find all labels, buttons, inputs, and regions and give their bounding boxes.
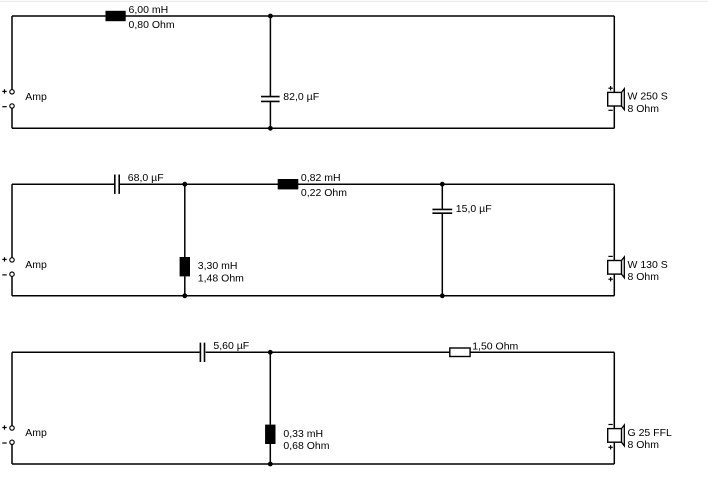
label Amp plus sign section 2 bbox=[2, 257, 6, 261]
speaker LS1 horn bbox=[622, 89, 625, 110]
wire bottom rail section 2 bbox=[12, 295, 614, 297]
wire right rail lower section 2 bbox=[613, 274, 615, 296]
label Amp plus sign section 1 bbox=[2, 89, 6, 93]
wire bottom rail section 3 bbox=[12, 463, 614, 465]
label Amp plus sign section 3 bbox=[2, 425, 6, 429]
label speaker minus section 2 bbox=[608, 255, 612, 257]
svg-text:8 Ohm: 8 Ohm bbox=[628, 439, 660, 451]
wire top rail right of C4 bbox=[206, 351, 615, 353]
node junction bottom of L2 bbox=[182, 293, 187, 298]
terminal Amp plus circle section 1 bbox=[10, 90, 14, 94]
svg-text:8 Ohm: 8 Ohm bbox=[628, 103, 660, 115]
svg-text:15,0 µF: 15,0 µF bbox=[456, 203, 492, 215]
wire L4 lower lead bbox=[269, 444, 271, 464]
wire left rail upper section 3 bbox=[11, 352, 13, 425]
svg-text:W 250 S: W 250 S bbox=[628, 91, 668, 103]
wire left rail lower section 1 bbox=[11, 108, 13, 128]
node junction bottom of C1 bbox=[268, 126, 273, 131]
speaker LS2 box bbox=[608, 261, 622, 275]
svg-text:8 Ohm: 8 Ohm bbox=[628, 271, 660, 283]
wire left rail upper section 2 bbox=[11, 184, 13, 257]
terminal Amp minus circle section 3 bbox=[10, 440, 14, 444]
inductor L4 shunt bbox=[265, 425, 275, 444]
wire L4 upper lead bbox=[269, 352, 271, 424]
wire bottom rail section 1 bbox=[12, 127, 614, 129]
svg-text:0,80 Ohm: 0,80 Ohm bbox=[129, 19, 175, 31]
svg-text:5,60 µF: 5,60 µF bbox=[213, 340, 249, 352]
wire L2 upper lead bbox=[184, 184, 186, 257]
svg-text:Amp: Amp bbox=[25, 427, 47, 439]
wire left rail upper section 1 bbox=[11, 16, 13, 90]
wire top rail section 1 bbox=[12, 15, 614, 17]
wire right rail upper section 2 bbox=[613, 184, 615, 260]
wire C1 lower lead bbox=[269, 101, 271, 128]
inductor L2 shunt bbox=[180, 257, 190, 276]
label Amp minus sign section 1 bbox=[2, 106, 6, 108]
speaker LS3 box bbox=[608, 429, 622, 443]
inductor L3 series bbox=[278, 179, 299, 189]
inductor L1 bbox=[106, 11, 126, 21]
label speaker minus section 1 bbox=[608, 109, 612, 111]
wire right rail lower section 3 bbox=[613, 442, 615, 464]
svg-text:6,00 mH: 6,00 mH bbox=[129, 4, 169, 16]
terminal Amp plus circle section 2 bbox=[10, 258, 14, 262]
capacitor C3 shunt bbox=[432, 209, 452, 213]
speaker LS2 horn bbox=[622, 257, 625, 278]
svg-text:82,0 µF: 82,0 µF bbox=[283, 91, 319, 103]
capacitor C2 series bbox=[115, 175, 119, 194]
svg-text:68,0 µF: 68,0 µF bbox=[128, 172, 164, 184]
label speaker plus section 3 bbox=[608, 445, 612, 449]
wire top rail right of C2 bbox=[120, 183, 614, 185]
wire L2 lower lead bbox=[184, 276, 186, 295]
wire top rail left of C2 bbox=[12, 183, 114, 185]
resistor R1 bbox=[450, 348, 470, 357]
terminal Amp minus circle section 2 bbox=[10, 272, 14, 276]
capacitor C4 series bbox=[200, 343, 204, 362]
wire C1 upper lead bbox=[269, 16, 271, 97]
svg-text:1,48 Ohm: 1,48 Ohm bbox=[198, 273, 244, 285]
speaker LS3 horn bbox=[622, 425, 625, 446]
label speaker plus section 2 bbox=[608, 277, 612, 281]
node junction bottom of C3 bbox=[440, 293, 445, 298]
toolbar divider line bbox=[0, 1, 708, 2]
capacitor C1 bbox=[261, 97, 280, 102]
wire top rail left of C4 bbox=[12, 351, 200, 353]
speaker LS1 box bbox=[608, 92, 622, 106]
wire left rail lower section 2 bbox=[11, 276, 13, 296]
wire right rail upper section 3 bbox=[613, 352, 615, 428]
svg-text:0,68 Ohm: 0,68 Ohm bbox=[283, 440, 329, 452]
svg-text:0,33 mH: 0,33 mH bbox=[283, 428, 323, 440]
svg-text:0,22 Ohm: 0,22 Ohm bbox=[301, 187, 347, 199]
svg-text:W 130 S: W 130 S bbox=[628, 259, 668, 271]
node junction top of C1 bbox=[268, 14, 273, 19]
wire left rail lower section 3 bbox=[11, 444, 13, 464]
wire C3 upper lead bbox=[441, 184, 443, 209]
wire right rail upper section 1 bbox=[613, 16, 615, 92]
terminal Amp plus circle section 3 bbox=[10, 426, 14, 430]
wire C3 lower lead bbox=[441, 213, 443, 296]
svg-text:Amp: Amp bbox=[25, 259, 47, 271]
label speaker plus section 1 bbox=[608, 86, 612, 90]
svg-text:G 25 FFL: G 25 FFL bbox=[628, 427, 673, 439]
svg-text:Amp: Amp bbox=[25, 91, 47, 103]
node junction top of L4 bbox=[268, 350, 273, 355]
svg-text:3,30 mH: 3,30 mH bbox=[198, 260, 238, 272]
label Amp minus sign section 3 bbox=[2, 442, 6, 444]
node junction top of C3 bbox=[440, 182, 445, 187]
wire right rail lower section 1 bbox=[613, 106, 615, 128]
label Amp minus sign section 2 bbox=[2, 274, 6, 276]
svg-text:1,50 Ohm: 1,50 Ohm bbox=[472, 340, 518, 352]
svg-text:0,82 mH: 0,82 mH bbox=[301, 172, 341, 184]
terminal Amp minus circle section 1 bbox=[10, 104, 14, 108]
label speaker minus section 3 bbox=[608, 424, 612, 426]
node junction top of L2 bbox=[182, 182, 187, 187]
node junction bottom of L4 bbox=[268, 462, 273, 467]
